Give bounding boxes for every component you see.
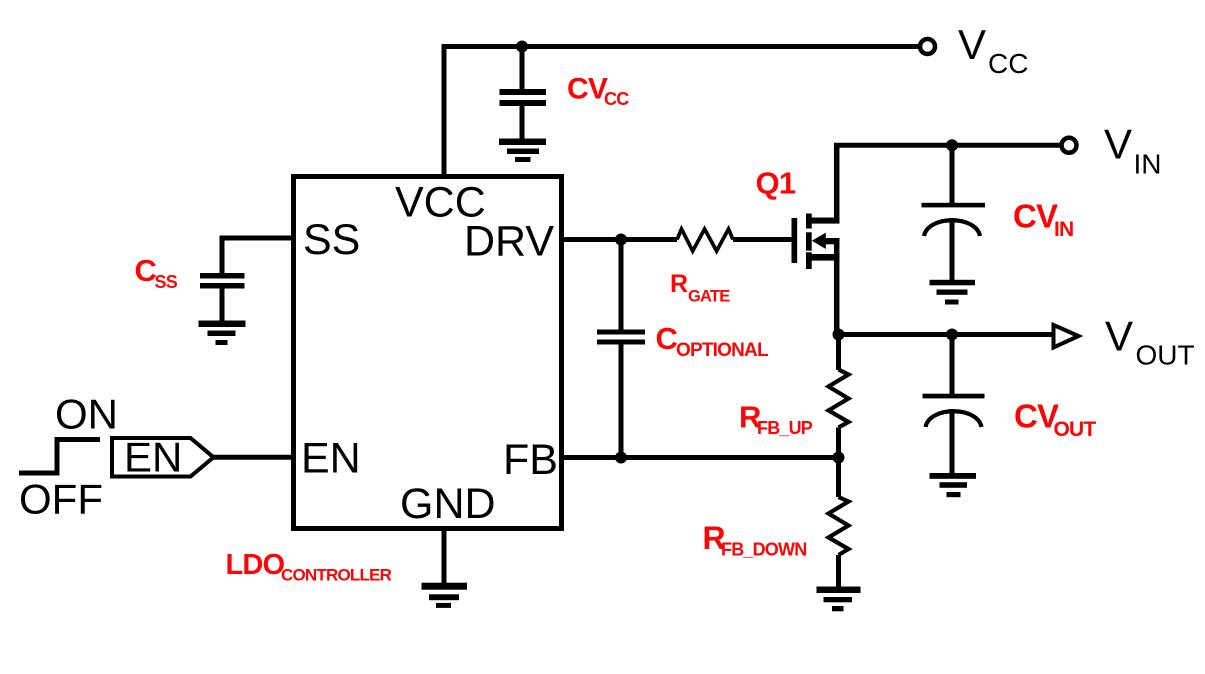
pin label VCC [395, 179, 486, 227]
wire EN tag to EN pin [214, 455, 294, 460]
waveform ON/OFF step [19, 440, 100, 474]
pin label FB [503, 436, 558, 484]
svg-text:FB_DOWN: FB_DOWN [721, 540, 806, 560]
value label CSS [135, 253, 178, 292]
transistor Q1 drain stub [808, 218, 840, 224]
svg-text:V: V [1104, 121, 1132, 168]
svg-text:V: V [958, 21, 986, 68]
terminal VIN (open circle) [1062, 138, 1077, 153]
net label VCC [958, 21, 1028, 79]
value label CVIN [1013, 198, 1073, 242]
transistor Q1 source stub [808, 254, 840, 261]
svg-text:EN: EN [124, 434, 182, 481]
ground (CVOUT) [930, 473, 977, 497]
svg-text:V: V [1105, 313, 1133, 360]
wire SS pin to CSS [222, 238, 294, 274]
ground (GND pin) [422, 583, 468, 608]
ground (CVIN) [930, 280, 976, 305]
pin label DRV [464, 218, 554, 266]
ref label Q1 [756, 166, 796, 201]
svg-text:OFF: OFF [19, 476, 103, 523]
EN input tag [112, 434, 214, 481]
svg-text:OUT: OUT [1054, 418, 1097, 441]
transistor Q1 body arrow [812, 233, 840, 249]
wire VCC rail to CVCC [520, 47, 525, 90]
svg-text:IN: IN [1134, 149, 1162, 180]
svg-text:EN: EN [301, 435, 361, 483]
ref label LDO CONTROLLER [226, 549, 392, 585]
svg-text:GATE: GATE [688, 288, 730, 306]
svg-text:IN: IN [1054, 218, 1073, 241]
net label VIN [1104, 121, 1162, 180]
capacitor CVIN (polarized) [922, 203, 986, 280]
value label COPTIONAL [656, 321, 769, 361]
ground (CSS) [199, 321, 246, 346]
svg-text:Q1: Q1 [756, 166, 796, 201]
terminal VCC (open circle) [920, 39, 935, 54]
wire FB net [562, 455, 839, 460]
pin label EN [301, 435, 361, 483]
capacitor CVCC [500, 89, 547, 106]
svg-text:FB_UP: FB_UP [757, 418, 813, 438]
node FB/COPTIONAL junction [615, 452, 627, 464]
svg-text:LDO: LDO [226, 549, 285, 581]
svg-text:OUT: OUT [1136, 340, 1195, 371]
net label VOUT [1105, 313, 1195, 371]
node VOUT/RFBUP junction [833, 329, 845, 341]
wire DRV junction to COPTIONAL [619, 240, 624, 331]
wire COPTIONAL to FB net [619, 345, 624, 458]
wire Q1 source to VOUT rail [834, 239, 840, 335]
node VCC rail junction [516, 41, 528, 53]
wire GND pin to ground [442, 529, 447, 584]
svg-text:R: R [670, 270, 688, 298]
wire VIN rail [834, 143, 1062, 148]
wire Q1 drain to VIN rail [834, 143, 840, 222]
wire RFBUP to FB node [836, 428, 841, 458]
svg-text:CC: CC [988, 48, 1028, 79]
resistor RGATE [677, 229, 733, 251]
value label CVCC [567, 73, 629, 110]
node VOUT/CVOUT junction [946, 329, 958, 341]
svg-text:OPTIONAL: OPTIONAL [676, 340, 769, 361]
svg-text:FB: FB [503, 436, 558, 484]
wire VIN rail to CVIN [950, 145, 955, 203]
pin label GND [400, 480, 496, 528]
svg-text:C: C [656, 321, 678, 356]
wire DRV to gate [562, 237, 795, 242]
capacitor COPTIONAL [597, 330, 645, 345]
value label RFBDOWN [703, 520, 807, 560]
wire CSS to ground [220, 288, 225, 322]
IC U1 LDO controller body [294, 177, 562, 529]
svg-text:GND: GND [400, 480, 496, 528]
wire VOUT rail [837, 332, 1054, 337]
wire VOUT to RFBUP [836, 335, 841, 371]
resistor RFBDOWN [829, 497, 849, 555]
svg-text:DRV: DRV [464, 218, 554, 266]
transistor Q1 channel segments [806, 214, 812, 270]
svg-text:CV: CV [1013, 198, 1058, 235]
wire CVCC to ground [520, 106, 525, 139]
label ON [55, 391, 118, 438]
value label CVOUT [1014, 398, 1096, 442]
svg-text:ON: ON [55, 391, 118, 438]
node DRV/COPTIONAL junction [615, 234, 627, 246]
value label RFBUP [739, 400, 813, 439]
ground (RFBDOWN) [817, 587, 861, 612]
svg-text:CV: CV [1014, 398, 1059, 435]
wire VOUT rail to CVOUT [950, 335, 955, 395]
resistor RFBUP [829, 370, 849, 428]
node VIN/CVIN junction [946, 139, 958, 151]
terminal VOUT (arrow) [1054, 325, 1079, 348]
svg-text:SS: SS [303, 216, 360, 264]
capacitor CVOUT (polarized) [923, 394, 985, 473]
label OFF [19, 476, 103, 523]
svg-text:CV: CV [567, 73, 608, 106]
svg-text:CC: CC [604, 89, 629, 109]
wire FB node to RFBDOWN [836, 458, 841, 498]
transistor Q1 gate bar [792, 218, 798, 263]
wire VCC pin to top rail [444, 47, 920, 177]
value label RGATE [670, 270, 730, 306]
pin label SS [303, 216, 360, 264]
svg-text:CONTROLLER: CONTROLLER [281, 566, 392, 585]
capacitor CSS [200, 273, 245, 289]
svg-text:SS: SS [155, 272, 178, 292]
node FB/resistor junction [833, 452, 845, 464]
svg-text:C: C [135, 253, 157, 288]
ground (CVCC) [499, 139, 546, 163]
wire RFBDOWN to ground [836, 555, 841, 588]
